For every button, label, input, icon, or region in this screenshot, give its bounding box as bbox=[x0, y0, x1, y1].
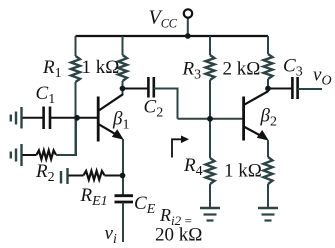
svg-text:2 kΩ: 2 kΩ bbox=[223, 59, 261, 80]
svg-text:1 kΩ: 1 kΩ bbox=[82, 57, 120, 78]
svg-text:1 kΩ: 1 kΩ bbox=[224, 161, 262, 182]
svg-text:20 kΩ: 20 kΩ bbox=[155, 225, 202, 246]
